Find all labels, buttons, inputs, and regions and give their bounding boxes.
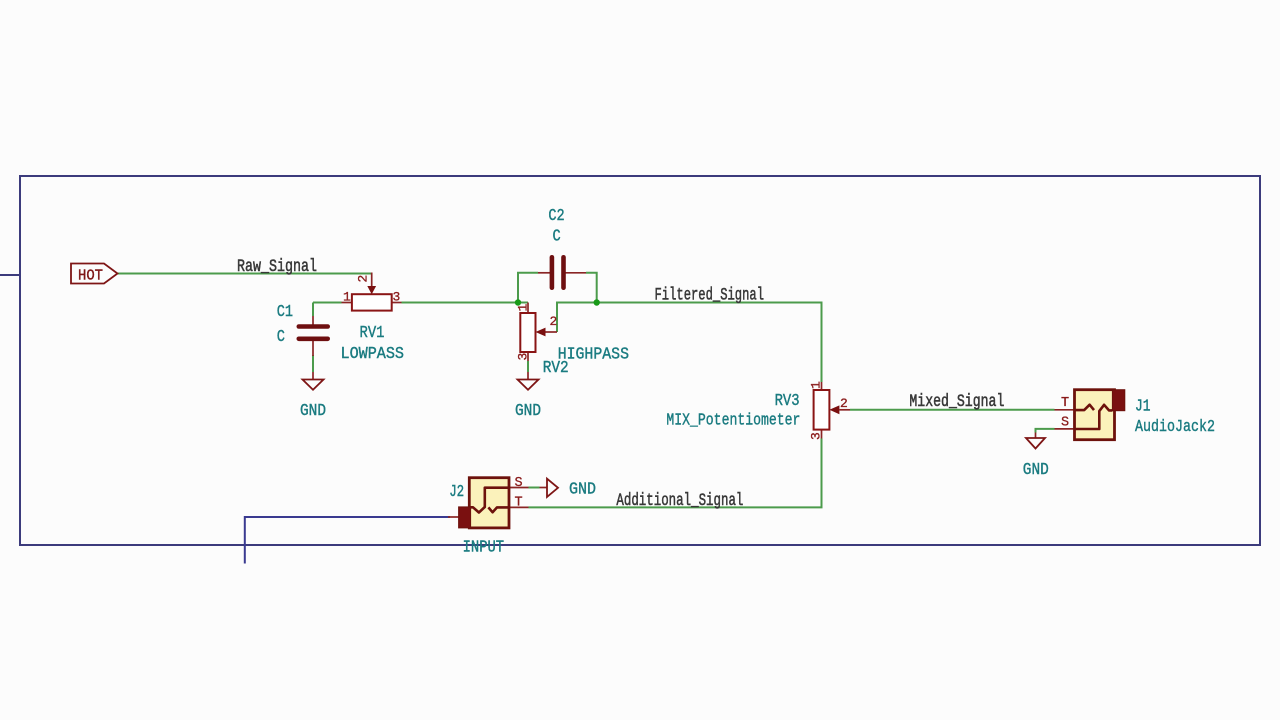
svg-text:C1: C1 (277, 302, 293, 321)
svg-text:3: 3 (809, 432, 824, 440)
svg-text:HOT: HOT (78, 268, 103, 285)
svg-text:S: S (515, 476, 523, 491)
svg-text:2: 2 (840, 396, 848, 411)
svg-text:J1: J1 (1135, 397, 1151, 416)
svg-text:INPUT: INPUT (463, 538, 505, 557)
svg-text:Additional_Signal: Additional_Signal (616, 491, 743, 511)
svg-text:C2: C2 (548, 206, 564, 225)
svg-text:1: 1 (343, 290, 351, 305)
svg-text:GND: GND (1023, 460, 1049, 479)
svg-text:1: 1 (809, 381, 824, 389)
svg-text:GND: GND (569, 480, 596, 499)
svg-text:1: 1 (516, 304, 531, 312)
svg-text:RV2: RV2 (543, 358, 569, 377)
svg-text:GND: GND (300, 401, 326, 420)
svg-text:3: 3 (516, 353, 531, 361)
svg-text:Raw_Signal: Raw_Signal (237, 257, 317, 277)
svg-text:T: T (1061, 396, 1069, 411)
svg-text:RV3: RV3 (775, 391, 800, 410)
svg-text:T: T (515, 495, 523, 510)
svg-text:C: C (553, 227, 561, 246)
svg-text:3: 3 (393, 290, 401, 305)
svg-text:J2: J2 (449, 482, 464, 501)
svg-text:Mixed_Signal: Mixed_Signal (909, 392, 1004, 412)
svg-text:GND: GND (515, 401, 541, 420)
svg-text:MIX_Potentiometer: MIX_Potentiometer (666, 410, 800, 429)
svg-text:S: S (1061, 416, 1069, 431)
svg-text:C: C (277, 327, 285, 346)
svg-text:AudioJack2: AudioJack2 (1135, 417, 1215, 436)
svg-text:LOWPASS: LOWPASS (341, 344, 405, 363)
svg-text:Filtered_Signal: Filtered_Signal (655, 286, 765, 306)
svg-text:2: 2 (356, 275, 371, 283)
svg-text:2: 2 (550, 314, 558, 329)
svg-text:RV1: RV1 (360, 323, 385, 342)
